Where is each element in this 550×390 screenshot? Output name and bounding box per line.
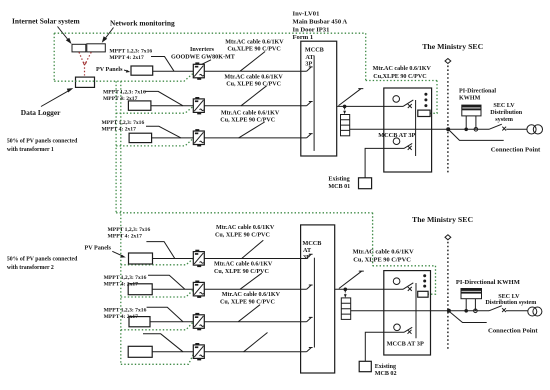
green bus top	[54, 32, 366, 34]
meter tap dot T	[464, 128, 468, 132]
svg-text:Cu,XLPE 90 C/PVC: Cu,XLPE 90 C/PVC	[373, 74, 426, 80]
boundary dotted line T	[447, 66, 449, 173]
dc wire T3	[152, 137, 194, 139]
svg-text:Cu,XLPE 90 C/PVC: Cu,XLPE 90 C/PVC	[227, 47, 280, 53]
panel bus B	[415, 283, 417, 338]
svg-text:Distribution: Distribution	[490, 110, 522, 116]
svg-text:SEC LV: SEC LV	[493, 103, 515, 109]
svg-text:Connection Point: Connection Point	[491, 146, 541, 153]
breaker blade T2	[307, 102, 313, 106]
ac wire B1	[204, 258, 306, 260]
svg-text:MPPT 1,2,3: 7x16: MPPT 1,2,3: 7x16	[108, 227, 151, 233]
breaker contact x T-exist	[408, 146, 412, 150]
grid wire B	[506, 310, 528, 312]
main lv wire B	[351, 310, 489, 312]
green run to panel B	[373, 265, 436, 267]
leader Mtr.AC B2	[240, 273, 262, 289]
ac wire B2	[204, 288, 306, 290]
leader MPPT B4	[143, 334, 183, 352]
breaker blade B3	[307, 317, 313, 321]
interface panel box T	[384, 88, 432, 172]
kwh meter B	[461, 289, 482, 299]
leader MPPT T2	[145, 91, 184, 105]
panel outgoing wire T	[337, 105, 403, 107]
signal dots T	[424, 93, 427, 96]
svg-text:Connection Point: Connection Point	[488, 328, 538, 335]
grid switch blade T	[489, 124, 502, 129]
red comm link left	[79, 52, 84, 63]
network monitoring box	[87, 44, 106, 52]
green line to inverter T3	[116, 139, 193, 146]
inverter U1	[193, 62, 204, 79]
existing MCB 02 box	[359, 361, 371, 371]
svg-text:In Door IP31: In Door IP31	[293, 26, 330, 33]
breaker blade B1	[307, 254, 313, 258]
svg-text:The Ministry SEC: The Ministry SEC	[422, 42, 483, 51]
PV array box B4	[128, 346, 152, 357]
leader Mtr.AC B3	[238, 305, 260, 322]
outgoing disconnect blade T	[339, 89, 364, 106]
ac wire T1	[204, 70, 306, 72]
CT stack T	[341, 115, 350, 136]
signal dots B	[423, 274, 426, 277]
breaker blade B4	[307, 348, 313, 352]
ac wire B3	[204, 321, 306, 323]
leader MPPT T3	[146, 126, 181, 138]
boundary dotted line B	[447, 242, 449, 350]
dc wire B3	[150, 321, 193, 323]
panel outgoing wire B	[335, 288, 403, 290]
junction node meter T	[446, 127, 450, 131]
svg-text:Data Logger: Data Logger	[21, 108, 61, 117]
breaker indicator circle B-top	[393, 278, 400, 285]
svg-text:MPPT 1,2,3: 7x16: MPPT 1,2,3: 7x16	[102, 120, 145, 126]
leader Mtr.AC T1	[240, 52, 265, 72]
green line datalogger to inverter T1	[54, 74, 192, 81]
main lv wire T	[350, 128, 489, 130]
svg-text:Main Busbar 450 A: Main Busbar 450 A	[293, 19, 348, 26]
breaker blade T3	[307, 134, 313, 138]
leader Mtr.AC T2	[241, 86, 267, 106]
inverter U5	[193, 281, 204, 298]
svg-text:MPPT 1,2,3: 7x16: MPPT 1,2,3: 7x16	[104, 275, 147, 281]
svg-text:MPPT 1,2,3: 7x16: MPPT 1,2,3: 7x16	[103, 90, 146, 96]
breaker blade B-main	[403, 283, 413, 290]
svg-text:MPPT 4: 2x17: MPPT 4: 2x17	[103, 96, 138, 102]
svg-text:MPPT 4: 2x17: MPPT 4: 2x17	[102, 127, 137, 133]
dc wire B2	[152, 288, 193, 290]
junction node B	[344, 288, 348, 292]
svg-text:MPPT 1,2,3: 7x16: MPPT 1,2,3: 7x16	[109, 49, 152, 55]
connection point leader T	[450, 131, 504, 141]
busbar T	[313, 56, 315, 151]
svg-text:MPPT 1,2,3: 7x16: MPPT 1,2,3: 7x16	[104, 307, 147, 313]
inverter U7	[193, 343, 204, 360]
arrow PV Panels B	[112, 251, 123, 256]
svg-text:PI-Directional: PI-Directional	[459, 89, 496, 95]
svg-text:Cu, XLPE 90 C/PVC: Cu, XLPE 90 C/PVC	[226, 81, 281, 87]
breaker contact x T-main	[408, 104, 412, 108]
svg-text:Mtr.AC cable 0.6/1KV: Mtr.AC cable 0.6/1KV	[225, 40, 284, 46]
leader MPPT B1	[146, 242, 174, 259]
svg-text:with transformer 1: with transformer 1	[7, 147, 54, 153]
PV array box T2	[128, 101, 151, 110]
leader MPPT T1	[151, 57, 174, 72]
boundary diamond T	[445, 59, 451, 64]
inverter U4	[193, 250, 204, 267]
grid transformer B	[528, 307, 537, 316]
breaker blade T-exist	[404, 143, 412, 148]
green drop mid	[372, 213, 374, 266]
svg-text:GOODWE GW80K-MT: GOODWE GW80K-MT	[171, 54, 235, 60]
svg-text:MPPT 4: 2x17: MPPT 4: 2x17	[108, 234, 143, 240]
svg-text:MCCB: MCCB	[305, 47, 324, 54]
existing feed wire B	[365, 332, 404, 361]
svg-text:MCCB AT 3P: MCCB AT 3P	[387, 341, 424, 348]
breaker indicator circle T-bottom	[393, 138, 400, 145]
ac wire T3	[204, 137, 306, 139]
svg-text:3P: 3P	[303, 254, 310, 261]
green line to inverter B3	[121, 323, 193, 330]
green drop right top	[365, 33, 367, 80]
dc wire B1	[153, 258, 194, 260]
svg-text:Mtr.AC cable 0.6/1KV: Mtr.AC cable 0.6/1KV	[224, 74, 283, 80]
svg-text:Inverters: Inverters	[190, 47, 215, 53]
green drop to module B	[428, 266, 435, 294]
busbar B	[313, 258, 315, 348]
leader Mtr.AC T3	[239, 122, 265, 138]
svg-text:MCCB: MCCB	[303, 240, 322, 247]
PV array box B1	[129, 253, 153, 264]
green line to inverter B2	[121, 290, 193, 297]
svg-text:MPPT 4: 2x17: MPPT 4: 2x17	[104, 314, 139, 320]
leader MPPT B3	[147, 307, 183, 322]
junction node T	[343, 105, 347, 109]
svg-text:PI-Directional KWHM: PI-Directional KWHM	[456, 279, 520, 286]
breaker blade T1	[307, 67, 313, 71]
svg-text:Inv-LV01: Inv-LV01	[293, 10, 320, 17]
comm module T	[418, 110, 430, 116]
green run to panel T	[366, 80, 437, 82]
CT stack B	[341, 298, 350, 320]
grid wire T	[506, 128, 527, 130]
red comm link right	[85, 52, 91, 63]
meter tap dot B	[464, 309, 468, 313]
green drop to module T	[430, 81, 437, 114]
svg-text:Mtr.AC cable 0.6/1KV: Mtr.AC cable 0.6/1KV	[216, 225, 275, 231]
svg-text:Existing: Existing	[375, 364, 396, 370]
arrow to network box	[104, 28, 114, 41]
PV array box B3	[129, 317, 150, 327]
svg-text:system: system	[495, 117, 513, 123]
svg-text:SEC LV: SEC LV	[498, 294, 520, 300]
svg-text:Network monitoring: Network monitoring	[110, 19, 175, 28]
meter legs B	[466, 299, 475, 311]
red arrowheads	[83, 62, 85, 65]
breaker blade T-main	[403, 100, 413, 107]
arrow to internet box	[58, 27, 70, 42]
svg-text:The Ministry SEC: The Ministry SEC	[412, 215, 473, 224]
green riser left	[53, 33, 55, 81]
green vertical v1	[115, 81, 117, 213]
svg-text:Mtr.AC cable 0.6/1KV: Mtr.AC cable 0.6/1KV	[214, 262, 273, 268]
leader Mtr.AC B1	[242, 240, 264, 258]
svg-text:KWHM: KWHM	[459, 96, 481, 102]
svg-text:Mtr.AC cable 0.6/1KV: Mtr.AC cable 0.6/1KV	[353, 249, 415, 256]
svg-text:Cu, XLPE 90 C/PVC: Cu, XLPE 90 C/PVC	[220, 117, 275, 123]
arrow PV Panels T	[124, 70, 128, 71]
breaker contact x B-exist	[408, 330, 412, 334]
dc wire B4	[152, 351, 193, 353]
breaker indicator circle B-bottom	[394, 324, 401, 331]
svg-text:Distribution system: Distribution system	[485, 300, 536, 306]
inverter U2	[193, 97, 204, 114]
internet box	[72, 44, 86, 52]
dashed link to CT stack T	[344, 108, 346, 111]
svg-text:Internet Solar system: Internet Solar system	[12, 17, 80, 26]
svg-text:50% of PV panels connected: 50% of PV panels connected	[7, 139, 78, 145]
connection point leader B	[450, 312, 487, 322]
svg-text:Mtr.AC cable 0.6/1KV: Mtr.AC cable 0.6/1KV	[373, 66, 432, 72]
svg-text:Form 1: Form 1	[293, 34, 314, 41]
arrow to data logger	[41, 90, 71, 107]
svg-text:Cu, XLPE 90 C/PVC: Cu, XLPE 90 C/PVC	[220, 299, 275, 305]
svg-text:Mtr.AC cable 0.6/1KV: Mtr.AC cable 0.6/1KV	[221, 110, 280, 116]
svg-text:MCB 02: MCB 02	[375, 371, 397, 377]
svg-text:PV Panels: PV Panels	[96, 67, 123, 73]
breaker indicator circle T-top	[393, 96, 400, 103]
dc wire T1	[153, 70, 194, 72]
breaker blade B-exist	[404, 327, 412, 332]
green vertical v2	[120, 81, 122, 364]
svg-text:Cu, XLPE 90 C/PVC: Cu, XLPE 90 C/PVC	[215, 232, 270, 238]
breaker blade B2	[307, 285, 313, 289]
svg-text:MPPT 4: 2x17: MPPT 4: 2x17	[109, 55, 144, 61]
grid transformer T	[527, 125, 536, 134]
inverter U6	[193, 313, 204, 330]
meter legs T	[466, 116, 476, 129]
PV array box T3	[129, 133, 152, 142]
PV array box B2	[128, 284, 152, 295]
boundary diamond B	[445, 235, 451, 240]
meter tap ring B	[474, 309, 478, 313]
green line to inverter T2	[116, 107, 193, 113]
data logger box	[76, 77, 95, 87]
junction node meter B	[447, 309, 451, 313]
leader inverters	[202, 60, 211, 64]
busbar panel box T	[301, 41, 337, 156]
PV array box T1	[131, 66, 153, 75]
svg-text:Mtr.AC cable 0.6/1KV: Mtr.AC cable 0.6/1KV	[222, 292, 281, 298]
svg-text:MPPT 4: 2x17: MPPT 4: 2x17	[104, 282, 139, 288]
green line to inverter B4	[121, 353, 194, 364]
comm module B	[418, 291, 428, 297]
svg-text:with transformer 2: with transformer 2	[7, 265, 54, 271]
red comm link down	[84, 64, 86, 76]
grid switch x B	[502, 308, 506, 312]
existing feed wire T	[365, 148, 404, 177]
svg-text:PV Panels: PV Panels	[85, 246, 112, 252]
grid switch blade B	[489, 306, 502, 311]
kwh meter T	[462, 105, 481, 116]
svg-text:Existing: Existing	[328, 177, 349, 183]
panel bus T	[415, 100, 417, 156]
grid switch x T	[502, 127, 506, 131]
leader Mtr.AC B4	[244, 333, 268, 352]
breaker contact x B-main	[408, 287, 412, 291]
dc wire T2	[151, 105, 193, 107]
inverter U3	[193, 129, 204, 146]
outgoing disconnect blade B	[339, 271, 364, 288]
svg-text:Cu, XLPE 90 C/PVC: Cu, XLPE 90 C/PVC	[353, 257, 411, 264]
svg-text:MCB 01: MCB 01	[328, 184, 350, 190]
interface panel box B	[384, 271, 431, 355]
existing MCB 01 box	[359, 178, 372, 189]
leader MPPT B2	[148, 275, 185, 289]
busbar panel box B	[301, 225, 335, 373]
dashed link to CT stack B	[344, 291, 346, 294]
svg-text:50% of PV panels connected: 50% of PV panels connected	[7, 257, 78, 263]
green cross bus to bottom panel	[116, 212, 373, 214]
green line to inverter B1	[121, 259, 193, 265]
meter tap ring T	[474, 128, 478, 132]
ac wire T2	[204, 105, 306, 107]
ac wire B4	[204, 351, 306, 353]
